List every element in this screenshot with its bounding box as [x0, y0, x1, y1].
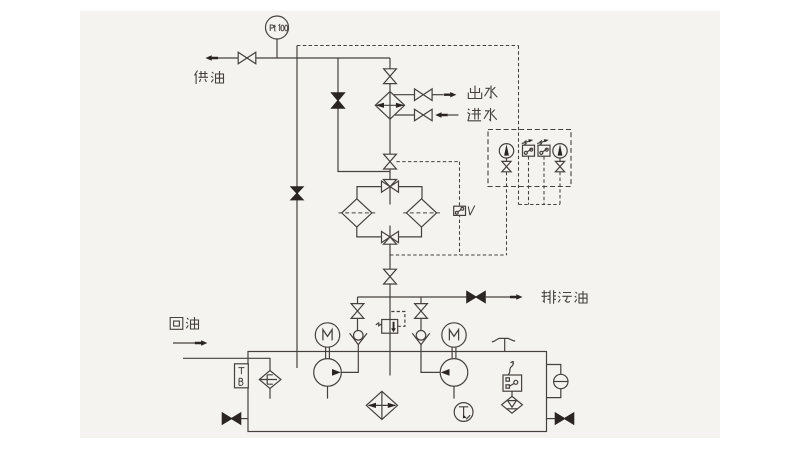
wire dashed switch2 drop: [543, 156, 545, 204]
wire level switch to displacer: [511, 391, 513, 397]
wire changeover to outlet valve: [389, 244, 391, 269]
heat exchanger (oil cooler): [375, 92, 404, 120]
valve filter outlet: [384, 269, 397, 284]
wire branch left riser: [357, 297, 359, 304]
wire dashed switch1 drop: [528, 156, 530, 204]
wire supply line: [256, 57, 390, 59]
pressure switch 2: [537, 139, 550, 156]
valve water in: [415, 109, 433, 121]
valve filter inlet: [384, 154, 397, 169]
pressure switch 1: [522, 139, 535, 156]
level switch: [503, 361, 522, 391]
shaft motor2-pump2: [452, 347, 456, 359]
wire dashed gauge2 drop: [559, 172, 561, 205]
wire valve to check2: [420, 318, 422, 330]
thermometer-level box TB: [235, 364, 249, 388]
valve blow-down (closed): [467, 291, 485, 302]
wire duplex loop bottom: [357, 227, 422, 237]
wire dashed pressure tap rail: [297, 45, 519, 47]
pressure gauge 2: [553, 144, 567, 162]
temperature sensor Pt100: [266, 16, 289, 39]
valve pump1 discharge: [351, 304, 364, 319]
wire check1 to pump1: [341, 344, 358, 372]
wire dashed panel manifold: [519, 204, 561, 206]
wire valve to check1: [357, 318, 359, 330]
valve supply shutoff: [238, 52, 256, 64]
wire cooler to filter valve: [389, 119, 391, 154]
return oil arrow: [173, 340, 207, 345]
wire water in arrow: [435, 112, 458, 117]
valve gauge 2: [555, 161, 564, 171]
differential pressure indicator: [454, 206, 475, 216]
filter element right: [403, 199, 440, 227]
label 回油 (return oil): [170, 317, 198, 329]
wire relief to tank: [389, 333, 391, 375]
wire header to relief valve: [389, 297, 391, 320]
label 供油 (supply oil): [195, 71, 224, 85]
wire left bypass vertical: [296, 46, 298, 369]
wire main line to cooler: [389, 58, 391, 69]
tank vent breather: [492, 338, 515, 351]
supply outlet arrow: [206, 55, 239, 60]
shaft motor1-pump1: [326, 347, 330, 359]
three-way changeover valve top: [382, 180, 399, 205]
wire blow-down arrow: [486, 294, 523, 299]
wire cooler bypass branch: [338, 58, 390, 172]
check valve pump2: [412, 331, 429, 345]
wire water out line: [394, 94, 415, 96]
valve tank drain left (closed): [222, 413, 248, 424]
heat exchanger in tank: [366, 391, 397, 419]
air breather filter E: [259, 371, 281, 389]
wire dashed tap filter inlet: [396, 161, 459, 163]
three-way changeover valve bottom: [382, 226, 399, 245]
gray drawing sheet: [80, 11, 720, 438]
wire breather stem: [269, 389, 271, 399]
wire water in line: [395, 114, 415, 116]
wire water out arrow: [432, 92, 456, 97]
valve bypass (closed): [291, 187, 303, 200]
wire pump1 suction: [327, 386, 329, 398]
wire dashed tap filter outlet: [390, 254, 507, 256]
motor M2: [442, 323, 466, 347]
displacer float: [502, 396, 523, 413]
wire outlet valve to header: [389, 284, 391, 297]
thermometer in tank: [454, 403, 473, 422]
wire return line: [183, 358, 270, 370]
pressure gauge 1: [499, 144, 513, 162]
wire dashed diff-pressure link: [459, 162, 461, 255]
check valve pump1: [350, 331, 367, 345]
valve gauge 1: [502, 161, 511, 171]
instrument panel dashed box: [488, 130, 571, 187]
wire dashed drop to gauge panel: [518, 46, 520, 205]
relief valve: [376, 312, 405, 334]
wire duplex loop top: [357, 187, 422, 199]
valve cooler bypass (closed): [332, 93, 345, 108]
pump P1: [314, 359, 342, 387]
level gauge: [547, 365, 569, 398]
wire check2 to pump2: [421, 344, 440, 372]
wire Pt100 stem: [276, 39, 278, 58]
motor M1: [315, 323, 339, 347]
valve pump2 discharge: [415, 304, 428, 319]
label 出水 (water outlet): [468, 86, 497, 99]
wire pump2 suction: [453, 386, 455, 398]
wire dashed gauge1 sense line: [506, 172, 508, 255]
label 排污油 (drain oil): [542, 290, 588, 303]
oil tank: [248, 352, 547, 432]
valve tank drain right (closed): [547, 413, 574, 424]
wire branch right riser: [420, 297, 422, 304]
wire pump discharge header: [358, 296, 467, 298]
valve water out: [415, 89, 433, 101]
filter element left: [339, 199, 376, 227]
wire valve to changeover: [389, 169, 391, 180]
pump P2: [440, 359, 468, 387]
wire valve to cooler: [389, 84, 391, 92]
label 进水 (water inlet): [468, 108, 497, 121]
valve cooler inlet: [384, 69, 397, 84]
